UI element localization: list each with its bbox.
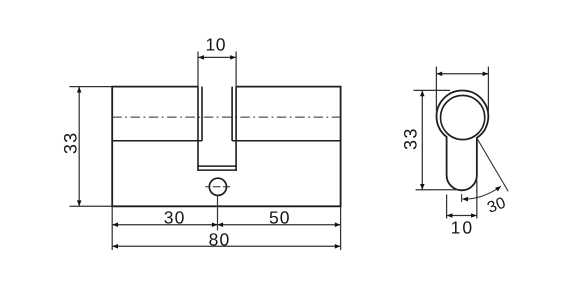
dimension 33 side view: dimension line [421, 90, 423, 189]
svg-text:30: 30 [485, 194, 508, 216]
svg-text:10: 10 [205, 35, 226, 55]
dimension 10 side view: extension lines [447, 180, 477, 219]
side view top dimension: arrows [437, 72, 489, 77]
dimension 33 side view: extension lines [414, 90, 461, 189]
side view top dimension: extension lines [436, 67, 488, 112]
dimension 30/50: dimension line [112, 224, 340, 226]
angle 30 arc [462, 186, 501, 199]
dimension 10 side view: arrows [447, 213, 477, 218]
dimension 30/50: arrows [112, 222, 340, 227]
dimension 80: arrows [112, 244, 340, 249]
cam slot right wall [232, 87, 236, 171]
dimension 80: dimension line [112, 245, 340, 247]
cam slot left wall [198, 87, 202, 171]
side view: 30-degree radial line [477, 138, 508, 191]
screw hole dash-dot centerline [205, 186, 230, 188]
body mid parting line [112, 140, 340, 142]
side view: bottom center tick [461, 194, 463, 202]
dimension 33 left: dimension line [78, 87, 80, 207]
dimension 33 left: extension lines [70, 87, 113, 207]
svg-text:33: 33 [401, 127, 421, 150]
dimension 10 top: extension lines [198, 52, 236, 87]
dimension 33 side view: arrows [420, 91, 425, 190]
dimension 33 left: arrows [77, 87, 82, 206]
svg-text:80: 80 [209, 230, 231, 250]
svg-text:10: 10 [451, 217, 474, 237]
side view: inner circle [441, 95, 485, 139]
side view: outer silhouette (circle + stem) [437, 90, 489, 190]
svg-text:33: 33 [61, 132, 81, 155]
side view top dimension: dimension line [436, 73, 488, 75]
dimension 10 top: arrows [198, 55, 236, 60]
angle 30 arc arrows [462, 186, 501, 201]
dimension 10 side view: dimension line [447, 215, 477, 217]
extension line below screw hole (middle divider) [217, 196, 219, 231]
svg-text:50: 50 [269, 208, 291, 228]
svg-text:30: 30 [164, 208, 186, 228]
bottom extension lines (body edges) [112, 206, 340, 250]
cam bar lines at slot bottom [197, 166, 237, 170]
cylinder body outline (front view) [112, 87, 340, 207]
horizontal dash-dot centerline (front view) [112, 116, 340, 118]
fixing screw hole circle [209, 178, 226, 195]
dimension 10 top: dimension line [198, 56, 236, 58]
